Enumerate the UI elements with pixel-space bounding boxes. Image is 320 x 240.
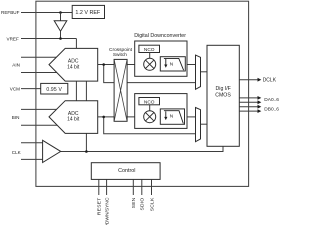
pin label SDIO [140,198,146,211]
svg-text:NCO: NCO [144,47,155,53]
mixer 1 [144,58,156,70]
wire REFBUF [21,12,72,14]
svg-text:1.2 V REF: 1.2 V REF [75,10,101,16]
reference buffer triangle [54,21,67,31]
wire DDC2 to mux2 [185,116,197,118]
wire SEN pin [132,179,134,195]
wire mux1 to Dig I/F [201,71,208,73]
junction dot ADC B out [102,116,105,119]
mixer 2 [144,111,156,123]
wire VCM [21,88,41,90]
pin label SEN [131,197,137,208]
wire DA bus line 1 [239,96,261,100]
pin label SCLK [149,197,155,211]
wire node to buffer [60,13,62,21]
DDC1 box [135,41,187,76]
NCO 2 box [139,98,160,106]
svg-text:BIN: BIN [12,115,20,120]
svg-text:DCLK: DCLK [263,78,277,84]
pin label VCM [10,87,20,92]
wire VREF rail to ADCs [75,39,77,102]
svg-text:SCLK: SCLK [149,197,155,211]
1.2 V REF box [72,5,104,18]
svg-text:PDWN/SYNC: PDWN/SYNC [105,197,111,225]
svg-text:SDIO: SDIO [140,198,146,211]
svg-text:RESET: RESET [97,198,103,216]
wire DA bus line 2 [239,100,261,104]
decimator 2 box [160,109,184,124]
wire crosspoint to DDC2 mixer [127,116,144,118]
Digital Downconverter label [134,33,186,39]
mux 2 [196,108,201,142]
wire CLK+ [21,142,46,144]
wire RESET pin [98,179,100,195]
pin label DB0..6 [264,107,279,113]
clock buffer triangle [43,140,61,162]
wire bypass B to mux2 [104,117,196,134]
svg-text:14 bit: 14 bit [67,64,80,70]
svg-text:14 bit: 14 bit [67,117,80,123]
wire DDC1 to mux1 [185,64,196,66]
junction dot REFBUF node [59,11,62,14]
wire buffer to VREF node [60,31,62,38]
ADC B [49,101,98,134]
wire mux2 to Dig I/F [201,123,208,125]
junction dot VREF node [59,37,62,40]
pin label REFBUF [1,10,20,15]
wire VREF [21,38,76,40]
svg-text:DB0..6: DB0..6 [264,107,279,113]
junction dot clock [85,150,88,153]
Control box [91,163,160,180]
svg-text:Dig I/F: Dig I/F [216,86,231,92]
pin label CLK [12,150,22,155]
wire BIN+ [21,108,58,110]
mux 1 [196,55,201,89]
pin label VREF [7,37,19,42]
pin label BIN [12,115,20,120]
svg-text:N: N [170,114,174,120]
chip border [36,1,249,186]
wire clock to Dig I/F [61,146,223,151]
svg-text:VREF: VREF [7,37,19,42]
pin label AIN [12,62,20,67]
svg-text:REFBUF: REFBUF [1,10,20,15]
svg-text:0.95 V: 0.95 V [46,87,62,93]
svg-text:CLK: CLK [12,150,22,155]
DDC2 box [135,94,187,129]
ADC A [49,48,98,81]
svg-text:NCO: NCO [144,99,155,105]
wire bypass A to mux1 [104,65,196,83]
decimator 1 box [160,57,185,71]
pin label DCLK [263,78,277,84]
svg-text:SEN: SEN [131,197,137,208]
svg-text:VCM: VCM [10,87,20,92]
svg-text:DA0..6: DA0..6 [264,97,279,103]
wire NCO2 to mixer2 [149,105,151,111]
svg-text:CMOS: CMOS [215,92,231,98]
svg-text:Digital Downconverter: Digital Downconverter [134,33,186,39]
wire NCO1 to mixer1 [149,53,151,59]
wire DCLK output [239,78,261,82]
wire PDWN/SYNC pin [106,179,108,195]
Dig I/F CMOS box [207,45,239,146]
svg-text:Switch: Switch [113,52,127,58]
pin label DA0..6 [264,97,279,103]
svg-text:N: N [170,61,174,67]
wire AIN- [21,72,58,74]
pin label RESET [97,198,103,216]
wire ADC B output [98,116,114,118]
svg-text:AIN: AIN [12,62,20,67]
0.95 V box [41,83,68,94]
wire SDIO pin [141,179,143,195]
wire AIN+ [21,56,58,58]
crosspoint switch box [114,59,127,121]
wire DB bus line 2 [239,109,261,113]
wire SCLK pin [151,179,153,195]
wire clock rail to ADCs [85,81,87,152]
wire crosspoint to DDC1 mixer [127,64,144,66]
NCO 1 box [139,45,160,53]
wire ADC A output [98,64,114,66]
wire DB bus line 1 [239,105,261,109]
svg-text:Control: Control [118,168,135,174]
wire BIN- [21,124,58,126]
junction dot ADC A out [102,63,105,66]
wire CLK- [21,158,46,160]
crosspoint switch label [109,47,133,58]
pin label PDWN/SYNC [105,197,111,227]
